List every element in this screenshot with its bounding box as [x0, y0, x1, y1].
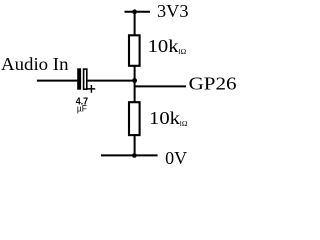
svg-text:lΩ: lΩ	[178, 47, 186, 56]
wire R2 to 0V rail	[134, 135, 136, 155]
svg-text:GP26: GP26	[189, 74, 237, 94]
wire GP26 stub	[135, 85, 186, 87]
3V3 rail	[125, 11, 151, 13]
node dot 0V rail	[132, 153, 137, 158]
svg-text:Audio In: Audio In	[1, 54, 69, 74]
svg-text:0V: 0V	[165, 148, 187, 168]
0V rail	[101, 154, 158, 156]
svg-text:10k: 10k	[149, 108, 180, 128]
wire capacitor to junction	[88, 80, 135, 82]
resistor R2 body	[129, 102, 140, 135]
wire R1 to junction to R2	[134, 66, 136, 102]
wire audio-in to capacitor	[37, 80, 78, 82]
svg-text:µF: µF	[77, 104, 88, 114]
wire 3V3 to resistor R1	[134, 12, 136, 36]
resistor R1 body	[129, 35, 140, 66]
node dot 3V3 rail	[132, 9, 137, 14]
capacitor C1 right plate (outlined)	[84, 69, 87, 89]
node junction dot (cap / divider)	[132, 78, 137, 83]
svg-text:lΩ: lΩ	[180, 119, 188, 128]
svg-text:10k: 10k	[148, 36, 179, 56]
capacitor plus sign	[88, 85, 96, 93]
svg-text:3V3: 3V3	[157, 1, 189, 21]
capacitor C1 left plate (polarized, solid bar)	[77, 68, 81, 89]
